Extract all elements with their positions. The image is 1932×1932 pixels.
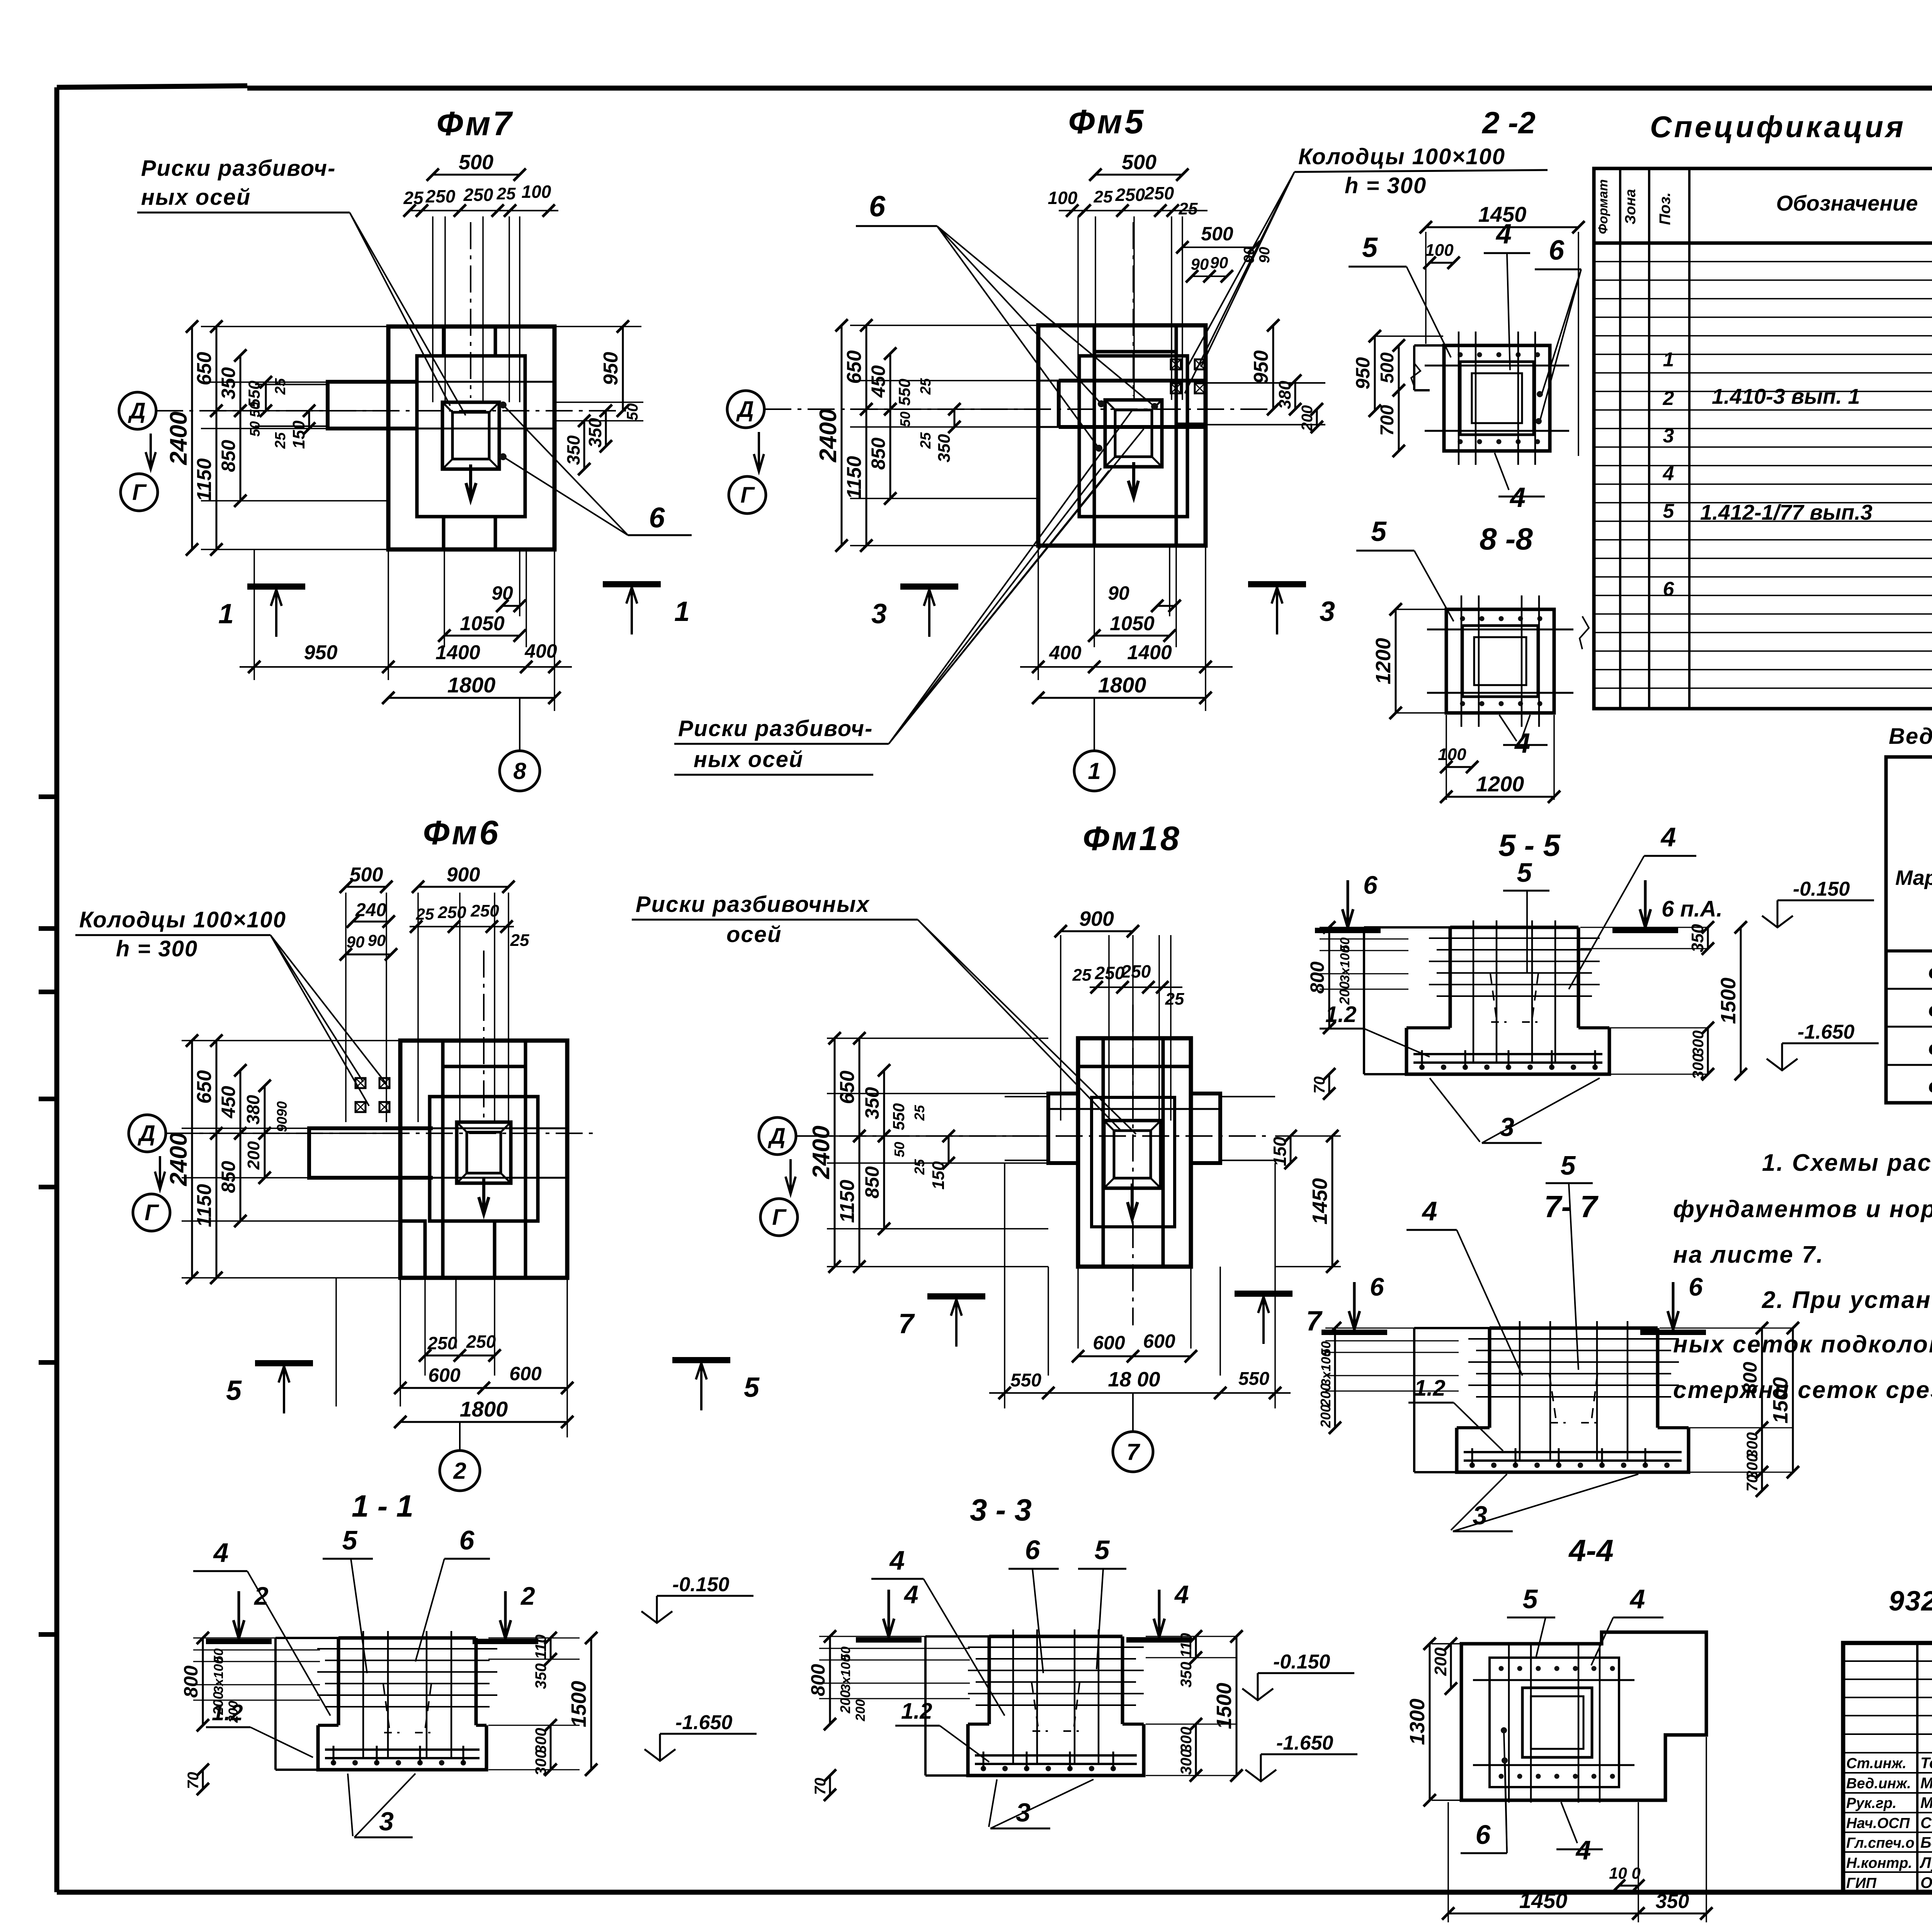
svg-text:Н.контр.: Н.контр.	[1846, 1855, 1912, 1871]
label 3 (7-7)	[1451, 1474, 1507, 1530]
svg-text:Риски разбивоч-: Риски разбивоч-	[141, 156, 336, 181]
svg-text:3х100: 3х100	[211, 1657, 226, 1694]
svg-text:900: 900	[1079, 907, 1114, 930]
svg-text:400: 400	[1049, 642, 1082, 663]
svg-text:Д: Д	[736, 397, 754, 422]
plan Фм5	[764, 222, 1325, 546]
svg-text:500: 500	[1122, 151, 1156, 174]
svg-text:550: 550	[1238, 1369, 1269, 1389]
svg-text:250: 250	[463, 185, 493, 205]
svg-text:Луценко: Луценко	[1919, 1854, 1932, 1871]
svg-text:90: 90	[274, 1117, 290, 1132]
svg-text:-1.650: -1.650	[1798, 1021, 1855, 1043]
svg-text:-0.150: -0.150	[1793, 878, 1850, 900]
svg-text:-1.650: -1.650	[675, 1711, 733, 1734]
svg-text:4: 4	[1660, 822, 1676, 852]
svg-text:ных сеток подколонников верхни: ных сеток подколонников верхние поперечн…	[1673, 1331, 1932, 1358]
svg-text:350: 350	[218, 367, 239, 400]
svg-text:150: 150	[1270, 1136, 1290, 1166]
svg-text:1.2: 1.2	[1325, 1002, 1357, 1027]
svg-text:250: 250	[1095, 963, 1125, 983]
svg-text:-0.150: -0.150	[672, 1573, 730, 1596]
section 8-8	[1372, 595, 1589, 803]
svg-text:9328/6: 9328/6	[1889, 1586, 1932, 1617]
svg-text:90: 90	[347, 933, 365, 951]
axis circle Г (Фм6)	[133, 1194, 170, 1231]
svg-text:2400: 2400	[165, 1133, 192, 1186]
svg-text:350: 350	[563, 435, 583, 465]
svg-text:3: 3	[871, 599, 887, 629]
svg-text:Фм6: Фм6	[423, 813, 501, 852]
svg-text:6: 6	[459, 1525, 475, 1555]
svg-text:110: 110	[1178, 1633, 1195, 1658]
svg-text:3: 3	[1016, 1798, 1031, 1827]
svg-text:3х100: 3х100	[1319, 1350, 1333, 1386]
svg-text:Фм18: Фм18	[1083, 819, 1182, 857]
dims left Фм6	[165, 1034, 400, 1284]
svg-text:6: 6	[1549, 235, 1565, 266]
svg-text:5: 5	[1371, 516, 1387, 547]
axis circle Д (Фм7)	[119, 392, 156, 429]
svg-text:100: 100	[1425, 241, 1454, 260]
svg-text:Моргунов: Моргунов	[1920, 1794, 1932, 1811]
labels 5-5	[1347, 880, 1349, 928]
svg-text:Г: Г	[740, 483, 755, 508]
svg-text:25: 25	[918, 432, 934, 449]
plan Фм6	[166, 951, 595, 1278]
svg-text:18 00: 18 00	[1108, 1368, 1160, 1391]
svg-text:на листе 7.: на листе 7.	[1673, 1242, 1824, 1268]
svg-text:1.2: 1.2	[1414, 1376, 1446, 1401]
svg-text:1150: 1150	[843, 456, 866, 499]
dims bottom Фм5	[1020, 546, 1233, 750]
svg-text:Колодцы 100×100: Колодцы 100×100	[79, 907, 286, 932]
svg-text:1200: 1200	[1372, 638, 1395, 684]
svg-text:1050: 1050	[460, 612, 505, 635]
svg-text:1800: 1800	[447, 673, 496, 697]
svg-text:240: 240	[355, 900, 386, 920]
axis circle Д (Фм6)	[129, 1115, 166, 1152]
svg-text:1400: 1400	[435, 641, 480, 664]
section mark 7 right	[1235, 1291, 1293, 1297]
svg-text:650: 650	[193, 1070, 216, 1104]
svg-text:600: 600	[428, 1364, 461, 1386]
svg-text:Рук.гр.: Рук.гр.	[1846, 1795, 1896, 1811]
svg-text:350: 350	[532, 1663, 549, 1689]
svg-text:1400: 1400	[1127, 641, 1172, 664]
svg-text:200: 200	[1337, 981, 1352, 1005]
svg-text:-0.150: -0.150	[1273, 1651, 1330, 1673]
svg-text:950: 950	[304, 641, 338, 664]
dims bottom Фм7	[240, 549, 572, 750]
svg-text:600: 600	[1143, 1330, 1175, 1352]
svg-text:1.2: 1.2	[901, 1699, 932, 1724]
dims right Фм18	[1270, 1130, 1341, 1273]
svg-text:300: 300	[1690, 1031, 1707, 1056]
svg-text:7: 7	[1126, 1439, 1140, 1465]
svg-text:300: 300	[1178, 1727, 1195, 1753]
svg-text:1450: 1450	[1308, 1178, 1332, 1225]
svg-text:Вед.инж.: Вед.инж.	[1846, 1776, 1911, 1792]
dims top Фм7	[403, 151, 558, 402]
dims right Фм5	[1241, 247, 1323, 433]
svg-text:1: 1	[218, 599, 234, 629]
svg-text:600: 600	[509, 1363, 542, 1384]
svg-text:250: 250	[470, 901, 499, 920]
svg-text:500: 500	[1201, 223, 1233, 245]
svg-text:5: 5	[1362, 232, 1378, 263]
svg-text:200: 200	[1299, 405, 1316, 432]
svg-text:2400: 2400	[165, 412, 192, 465]
svg-text:Бояоченко: Бояоченко	[1920, 1834, 1932, 1851]
svg-text:1300: 1300	[1406, 1699, 1429, 1745]
svg-text:1500: 1500	[567, 1681, 590, 1727]
axis circle 2	[440, 1451, 480, 1491]
section mark 5 right	[672, 1357, 730, 1363]
dims right Фм7	[554, 320, 643, 475]
svg-text:2: 2	[453, 1458, 466, 1484]
axis circle Г (Фм5)	[729, 476, 766, 514]
svg-text:8 -8: 8 -8	[1480, 522, 1533, 556]
svg-text:90: 90	[1257, 247, 1273, 263]
svg-text:Фм7: Фм7	[1928, 1037, 1932, 1061]
svg-text:6: 6	[1363, 871, 1378, 899]
svg-text:90: 90	[1210, 253, 1228, 272]
svg-text:1150: 1150	[193, 1184, 216, 1227]
svg-text:150: 150	[929, 1161, 948, 1190]
svg-text:Марка элемента: Марка элемента	[1895, 866, 1932, 889]
svg-text:100: 100	[1048, 188, 1078, 208]
svg-text:700: 700	[1377, 405, 1398, 436]
title block	[1843, 1643, 1932, 1894]
svg-text:1: 1	[1088, 758, 1100, 784]
svg-text:6: 6	[649, 502, 665, 534]
svg-text:300: 300	[1178, 1749, 1195, 1775]
svg-text:550: 550	[889, 1103, 908, 1130]
svg-text:90: 90	[492, 582, 513, 604]
section 4-4	[1406, 1632, 1713, 1922]
svg-text:25: 25	[912, 1159, 927, 1175]
svg-text:500: 500	[350, 864, 383, 886]
svg-text:450: 450	[867, 365, 889, 398]
dims bottom Фм6	[336, 1278, 573, 1450]
svg-text:3х100: 3х100	[838, 1655, 853, 1692]
svg-text:3: 3	[1473, 1501, 1487, 1530]
svg-text:70: 70	[185, 1772, 202, 1789]
svg-text:Гл.спеч.о: Гл.спеч.о	[1846, 1835, 1915, 1851]
svg-text:300: 300	[532, 1750, 549, 1776]
label 3 (5-5)	[1430, 1078, 1480, 1142]
svg-text:1 - 1: 1 - 1	[352, 1489, 413, 1523]
svg-text:3х100: 3х100	[1338, 946, 1352, 983]
svg-text:25: 25	[497, 184, 516, 203]
svg-text:350: 350	[1688, 924, 1707, 952]
svg-text:Саакьянц: Саакьянц	[1920, 1815, 1932, 1832]
svg-text:Толмачева: Толмачева	[1920, 1755, 1932, 1772]
svg-text:Фм18: Фм18	[1928, 1075, 1932, 1099]
svg-text:6: 6	[1689, 1272, 1703, 1301]
section mark 1 left	[247, 583, 305, 590]
svg-text:70: 70	[812, 1778, 829, 1795]
svg-text:Ст.инж.: Ст.инж.	[1846, 1755, 1906, 1772]
svg-text:25: 25	[912, 1105, 927, 1121]
svg-text:450: 450	[218, 1086, 239, 1119]
svg-text:5: 5	[342, 1525, 358, 1555]
svg-text:250: 250	[1144, 183, 1174, 203]
spec table	[1594, 168, 1932, 709]
svg-text:380: 380	[243, 1095, 263, 1124]
svg-text:7: 7	[898, 1308, 915, 1339]
svg-text:100: 100	[1438, 745, 1466, 764]
dims left Фм5	[815, 319, 1038, 552]
svg-text:4: 4	[1629, 1584, 1645, 1614]
svg-text:25: 25	[1094, 187, 1113, 206]
labels 7-7	[1353, 1282, 1356, 1330]
svg-text:100: 100	[522, 182, 551, 202]
axis circle Д (Фм18)	[759, 1117, 796, 1155]
svg-text:25: 25	[918, 378, 934, 395]
svg-text:6: 6	[1370, 1272, 1384, 1301]
labels 3-3	[888, 1590, 890, 1638]
svg-text:4-4: 4-4	[1568, 1533, 1614, 1568]
svg-text:2. При установке в опалубку ве: 2. При установке в опалубку вертикаль-	[1762, 1287, 1932, 1313]
svg-text:5: 5	[1561, 1150, 1576, 1180]
svg-text:110: 110	[532, 1634, 549, 1659]
svg-text:300: 300	[532, 1728, 549, 1754]
svg-text:200: 200	[837, 1690, 853, 1714]
svg-text:1450: 1450	[1519, 1888, 1568, 1913]
svg-text:850: 850	[218, 1161, 239, 1193]
svg-text:90: 90	[1191, 255, 1209, 273]
svg-text:25: 25	[1165, 990, 1184, 1009]
svg-text:1500: 1500	[1769, 1377, 1792, 1423]
svg-text:50: 50	[624, 403, 641, 421]
svg-text:600: 600	[1093, 1332, 1125, 1354]
svg-text:Макарова: Макарова	[1920, 1775, 1932, 1792]
svg-text:2 -2: 2 -2	[1481, 105, 1536, 140]
svg-text:6 п.А.: 6 п.А.	[1662, 896, 1723, 922]
bolts Фм6	[355, 1078, 366, 1088]
section mark 3 left	[900, 583, 958, 590]
svg-text:1.410-3 вып. 1: 1.410-3 вып. 1	[1712, 384, 1860, 408]
svg-text:50 50: 50 50	[247, 402, 263, 437]
svg-text:5: 5	[1523, 1584, 1538, 1614]
svg-text:4: 4	[1174, 1580, 1189, 1609]
svg-text:Зона: Зона	[1622, 189, 1639, 224]
svg-text:25: 25	[272, 432, 289, 449]
svg-text:10 0: 10 0	[1609, 1864, 1641, 1882]
svg-text:300: 300	[1690, 1054, 1707, 1080]
svg-text:350: 350	[935, 434, 954, 463]
svg-text:5: 5	[1517, 857, 1532, 888]
svg-text:Д: Д	[137, 1121, 155, 1146]
svg-text:1800: 1800	[460, 1397, 508, 1421]
svg-text:Д: Д	[767, 1124, 786, 1149]
axis circle Г (Фм7)	[121, 474, 158, 511]
svg-text:650: 650	[843, 350, 866, 384]
svg-text:3: 3	[1500, 1112, 1514, 1142]
svg-text:5: 5	[1095, 1535, 1110, 1565]
svg-text:150: 150	[289, 420, 308, 449]
svg-text:90: 90	[1108, 582, 1129, 604]
svg-text:Фм6: Фм6	[1928, 999, 1932, 1023]
labels 1-1	[238, 1591, 240, 1639]
svg-text:500: 500	[459, 151, 493, 174]
svg-text:4: 4	[213, 1537, 229, 1568]
svg-text:6: 6	[1663, 578, 1675, 600]
svg-text:2: 2	[1663, 387, 1674, 410]
svg-text:7- 7: 7- 7	[1544, 1189, 1599, 1224]
svg-text:90: 90	[368, 931, 386, 949]
svg-text:1. Схемы раскладки сеток подош: 1. Схемы раскладки сеток подошв	[1762, 1150, 1932, 1176]
steel table	[1886, 757, 1932, 1103]
axis circle 1	[1074, 751, 1114, 791]
svg-text:Д: Д	[128, 398, 146, 423]
svg-text:350: 350	[1178, 1662, 1195, 1688]
svg-text:1500: 1500	[1717, 978, 1740, 1024]
svg-text:70: 70	[1744, 1475, 1761, 1492]
svg-text:6: 6	[869, 190, 886, 223]
svg-text:25: 25	[403, 188, 424, 208]
svg-text:250: 250	[437, 903, 466, 922]
dims top Фм5	[1048, 151, 1260, 400]
axis circle 7	[1113, 1432, 1153, 1472]
svg-text:4: 4	[889, 1545, 905, 1575]
svg-text:900: 900	[447, 864, 480, 886]
svg-text:Фм7: Фм7	[437, 104, 514, 143]
svg-text:ГИП: ГИП	[1846, 1875, 1877, 1891]
svg-text:950: 950	[600, 352, 622, 386]
svg-text:3 - 3: 3 - 3	[970, 1493, 1032, 1527]
svg-text:1: 1	[674, 596, 690, 627]
dims left Фм7	[165, 320, 388, 556]
svg-text:1150: 1150	[193, 458, 216, 502]
svg-text:Риски разбивочных: Риски разбивочных	[636, 892, 870, 917]
svg-text:5: 5	[226, 1375, 242, 1406]
section 2-2	[1352, 202, 1585, 465]
svg-text:200: 200	[1318, 1383, 1333, 1407]
axis circle Г (Фм18)	[760, 1199, 798, 1236]
section 1-1	[180, 1631, 597, 1795]
svg-text:25: 25	[1072, 966, 1092, 985]
svg-text:400: 400	[524, 640, 557, 662]
svg-text:Фм5: Фм5	[1068, 102, 1146, 141]
section mark 3 right	[1248, 581, 1306, 587]
svg-text:850: 850	[218, 440, 239, 472]
axis circle Д (Фм5)	[727, 391, 764, 428]
svg-text:25: 25	[416, 905, 434, 923]
svg-text:250: 250	[1121, 961, 1151, 981]
svg-text:550: 550	[895, 379, 913, 406]
svg-text:350: 350	[861, 1087, 883, 1119]
svg-text:50: 50	[891, 1142, 907, 1157]
label 3 (3-3)	[989, 1779, 997, 1827]
svg-text:800: 800	[180, 1665, 202, 1698]
plan Фм7	[156, 222, 626, 549]
svg-text:200: 200	[1431, 1647, 1450, 1676]
svg-text:650: 650	[836, 1071, 859, 1104]
svg-text:25: 25	[510, 931, 529, 950]
svg-text:200: 200	[1318, 1405, 1333, 1428]
svg-text:1050: 1050	[1110, 612, 1155, 635]
svg-text:ных осей: ных осей	[141, 185, 251, 210]
svg-text:250: 250	[425, 186, 456, 206]
dims left Фм18	[808, 1032, 1048, 1273]
svg-text:Формат: Формат	[1596, 179, 1611, 234]
svg-text:6: 6	[1476, 1820, 1491, 1850]
svg-text:200: 200	[244, 1141, 263, 1170]
svg-text:3: 3	[1663, 425, 1674, 447]
section 5-5	[1306, 920, 1747, 1100]
svg-text:-1.650: -1.650	[1276, 1732, 1333, 1754]
dims top Фм6	[340, 864, 529, 1122]
svg-text:1.412-1/77 вып.3: 1.412-1/77 вып.3	[1700, 500, 1872, 524]
svg-text:50: 50	[897, 412, 913, 427]
svg-text:4: 4	[1509, 482, 1526, 513]
dims bottom Фм18	[989, 1163, 1291, 1430]
section 7-7	[1318, 1321, 1799, 1497]
svg-text:70: 70	[1311, 1077, 1328, 1094]
svg-text:4: 4	[1422, 1196, 1437, 1226]
svg-text:1: 1	[1663, 349, 1674, 371]
svg-text:Г: Г	[132, 480, 147, 505]
svg-text:Г: Г	[145, 1200, 159, 1225]
svg-text:ных осей: ных осей	[694, 747, 803, 772]
svg-text:350: 350	[585, 418, 605, 447]
bolts Фм5	[1171, 359, 1181, 369]
svg-text:6: 6	[1025, 1535, 1041, 1565]
svg-text:7: 7	[1306, 1306, 1323, 1337]
plan Фм18	[796, 1005, 1275, 1325]
svg-text:2400: 2400	[808, 1126, 835, 1179]
svg-text:25: 25	[1179, 199, 1198, 218]
svg-text:4: 4	[1495, 219, 1512, 250]
svg-text:осей: осей	[726, 922, 782, 947]
section mark 7 left	[927, 1293, 985, 1299]
svg-text:Колодцы 100×100: Колодцы 100×100	[1298, 144, 1505, 169]
svg-text:Поз.: Поз.	[1656, 192, 1673, 225]
svg-text:250: 250	[1115, 185, 1145, 205]
svg-text:стержни сеток срезать.: стержни сеток срезать.	[1673, 1377, 1932, 1403]
svg-text:800: 800	[1306, 961, 1328, 994]
svg-text:500: 500	[1377, 352, 1398, 383]
svg-text:Спецификация: Спецификация	[1650, 110, 1906, 144]
svg-text:1500: 1500	[1213, 1683, 1236, 1729]
svg-text:3: 3	[379, 1807, 394, 1836]
svg-text:380: 380	[1276, 381, 1294, 409]
svg-text:1800: 1800	[1098, 673, 1146, 697]
svg-text:650: 650	[193, 352, 216, 386]
svg-text:3: 3	[1320, 596, 1335, 627]
svg-text:850: 850	[861, 1166, 883, 1199]
dims top Фм18	[1054, 907, 1184, 1121]
svg-text:2400: 2400	[815, 409, 842, 463]
svg-text:90: 90	[1241, 247, 1257, 263]
svg-text:550: 550	[1010, 1370, 1041, 1391]
svg-text:4: 4	[903, 1580, 918, 1609]
svg-text:850: 850	[867, 437, 889, 470]
svg-text:Нач.ОСП: Нач.ОСП	[1846, 1815, 1910, 1832]
svg-text:фундаментов и нормативных нагр: фундаментов и нормативных нагрузок даны	[1673, 1196, 1932, 1223]
svg-text:25: 25	[272, 378, 289, 395]
svg-text:350: 350	[1656, 1890, 1689, 1913]
svg-text:800: 800	[807, 1664, 829, 1696]
svg-text:5: 5	[744, 1372, 760, 1403]
svg-text:2: 2	[520, 1582, 535, 1610]
svg-text:90: 90	[274, 1101, 290, 1117]
svg-text:h = 300: h = 300	[116, 936, 198, 961]
svg-text:200: 200	[853, 1699, 868, 1722]
